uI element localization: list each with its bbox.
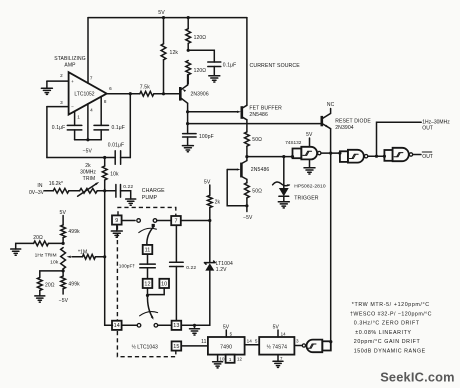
svg-text:7: 7 <box>90 76 93 81</box>
svg-text:LT1004: LT1004 <box>216 261 233 267</box>
label trigger <box>294 196 319 202</box>
label half LTC1043 <box>132 344 158 351</box>
svg-text:4: 4 <box>90 108 93 113</box>
junction top rail / 12k <box>162 16 165 19</box>
wire op-amp pin4 down <box>87 104 89 140</box>
wire ramp node vertical <box>187 112 189 124</box>
wire feedback left vertical <box>46 107 48 158</box>
svg-text:0.22: 0.22 <box>123 184 133 190</box>
svg-text:50Ω: 50Ω <box>252 137 262 143</box>
wire op-amp pin7 to 5V rail <box>87 18 89 84</box>
resistor 20ohm lower <box>37 269 63 296</box>
svg-text:RESET DIODE: RESET DIODE <box>335 118 371 124</box>
capacitor 100pF ramp <box>183 124 214 146</box>
svg-text:2N5486: 2N5486 <box>251 167 270 173</box>
svg-text:7490: 7490 <box>220 344 232 350</box>
wire pin14 to contact <box>122 324 138 326</box>
svg-text:0.1μF: 0.1μF <box>52 125 66 131</box>
resistor 20ohm left <box>16 235 63 249</box>
capacitor 0.1uF current source <box>208 62 237 68</box>
svg-text:*TRW MTR-5/ +120ppm/°C: *TRW MTR-5/ +120ppm/°C <box>352 302 430 308</box>
svg-text:−: − <box>71 104 74 109</box>
svg-text:11: 11 <box>201 339 207 345</box>
svg-text:14: 14 <box>247 338 253 343</box>
junction pin13 ground tee <box>193 324 196 327</box>
label 1Hz-30MHz OUT <box>422 119 450 131</box>
svg-text:LTC1052: LTC1052 <box>74 91 94 97</box>
junction out tap 1 <box>375 155 378 158</box>
junction 120ohm middle <box>187 49 190 52</box>
junction FET source node <box>245 155 248 158</box>
capacitor 100pF flying <box>119 254 156 279</box>
svg-text:5: 5 <box>255 338 258 343</box>
capacitor 0.1uF at pin1 <box>52 125 82 140</box>
potentiometer 10k 1Hz trim <box>35 248 66 269</box>
wire gate2 output <box>368 155 385 157</box>
wire 5V top rail <box>88 17 247 19</box>
wire Q2 emitter down <box>330 129 332 154</box>
svg-text:−5V: −5V <box>83 148 93 154</box>
svg-text:12: 12 <box>237 356 243 361</box>
svg-text:OUT: OUT <box>422 125 433 131</box>
label IN 0V-3V <box>29 183 45 196</box>
capacitor 0.22 input bypass <box>105 184 134 199</box>
svg-text:12k: 12k <box>170 50 179 56</box>
svg-text:−5V: −5V <box>243 215 253 221</box>
resistor 499k upper <box>61 216 80 244</box>
svg-text:0.22: 0.22 <box>186 265 196 271</box>
ground 7490 <box>213 362 223 368</box>
transistor Q1 2N3906 <box>180 85 209 103</box>
svg-text:0.3Hz/°C ZERO DRIFT: 0.3Hz/°C ZERO DRIFT <box>354 321 420 327</box>
wiper arrow 1Hz trim <box>67 256 83 258</box>
wire Q1 collector down <box>187 103 189 112</box>
svg-text:74S132: 74S132 <box>285 140 302 145</box>
junction divider feedback <box>329 340 332 343</box>
junction diode tap <box>282 155 285 158</box>
svg-text:8: 8 <box>104 99 107 104</box>
svg-text:10: 10 <box>219 356 225 361</box>
svg-text:½ 74S74: ½ 74S74 <box>267 343 288 350</box>
wire trim to node <box>97 190 105 192</box>
svg-text:2N5486: 2N5486 <box>249 112 268 118</box>
capacitor 0.1uF at pin8 <box>94 125 125 140</box>
svg-text:SeekIC.com: SeekIC.com <box>380 369 455 384</box>
svg-text:2k: 2k <box>85 163 91 169</box>
svg-text:1: 1 <box>229 357 232 362</box>
wire gate3 output <box>413 154 421 156</box>
wire Q4 gate feedback <box>227 170 247 206</box>
svg-text:1Hz–30MHz: 1Hz–30MHz <box>422 119 450 125</box>
svg-text:50Ω: 50Ω <box>252 189 262 195</box>
svg-text:CHARGE: CHARGE <box>142 188 165 194</box>
wire 16.2k to trim <box>69 190 80 192</box>
junction gate1 output node <box>329 152 332 155</box>
junction ramp node lower <box>186 122 189 125</box>
wire oscillator to divider <box>330 153 332 342</box>
svg-text:30MHz: 30MHz <box>80 169 96 175</box>
ground at op-amp pin2 <box>41 81 52 94</box>
svg-text:PUMP: PUMP <box>142 195 158 201</box>
wire current source drop <box>246 18 248 106</box>
resistor 2k <box>207 185 220 221</box>
wire 0.01uF up to output node <box>129 94 131 158</box>
wire ramp to reset diode <box>188 123 322 125</box>
junction Q4 source node <box>245 204 248 207</box>
svg-text:2k: 2k <box>215 200 221 206</box>
wire contact to pin7 <box>157 220 171 222</box>
gate U2b schmitt nand <box>348 150 368 163</box>
wire op-amp pin1 down <box>74 111 76 125</box>
wire op-amp pin6 output <box>107 93 131 95</box>
wire 5V 7490 <box>223 324 233 337</box>
label HP5082-2810 <box>294 183 326 189</box>
resistor 12k <box>161 18 178 94</box>
svg-text:11: 11 <box>145 247 151 253</box>
svg-text:5: 5 <box>230 331 233 336</box>
label -5V divider <box>59 298 69 304</box>
svg-text:6: 6 <box>109 86 112 91</box>
junction switch pole bottom <box>146 294 149 297</box>
resistor 10k integrator <box>102 158 119 191</box>
junction 2k node <box>208 219 211 222</box>
capacitor 0.22 pump <box>170 225 197 321</box>
svg-text:0.1μF: 0.1μF <box>223 62 237 68</box>
gate U2a 74S132 schmitt nand <box>301 147 321 160</box>
wire pin9 to contact <box>122 220 136 222</box>
label 5V 2k <box>204 180 211 186</box>
wire pin7 to 2k node <box>181 220 210 222</box>
junction ramp node upper <box>186 110 189 113</box>
junction input node <box>103 189 106 192</box>
svg-text:2: 2 <box>60 73 63 78</box>
pin box 13 <box>172 321 182 330</box>
svg-text:10: 10 <box>161 281 167 287</box>
resistor 1M <box>78 249 105 259</box>
IC 7490 <box>208 337 245 355</box>
label -5V opamp <box>83 148 93 154</box>
gate U2d inverter mirrored <box>302 340 322 353</box>
gate U2b input tie <box>338 151 348 162</box>
gate U2d input tie <box>322 341 331 350</box>
svg-text:9: 9 <box>115 218 118 224</box>
wire long vertical to pump <box>105 191 113 325</box>
svg-text:499k: 499k <box>68 229 80 235</box>
svg-text:−5V: −5V <box>59 298 69 304</box>
potentiometer 2k 30MHz trim <box>78 163 100 196</box>
label OUT-bar <box>422 152 433 160</box>
footnote WESCO <box>350 311 432 317</box>
node 5V top rail label <box>158 10 165 16</box>
svg-text:AMP: AMP <box>64 62 76 68</box>
svg-text:†WESCO #32-P/ −120ppm/°C: †WESCO #32-P/ −120ppm/°C <box>350 311 432 317</box>
label 74S132 <box>285 140 302 145</box>
wire ramp to FET gate <box>188 111 241 113</box>
junction top rail / 120ohm <box>187 16 190 19</box>
svg-text:16.2k*: 16.2k* <box>49 181 63 187</box>
pin box 15 <box>172 341 182 350</box>
svg-text:*1M: *1M <box>78 249 87 255</box>
svg-text:1: 1 <box>77 115 80 120</box>
dashed box LTC1043 <box>117 207 175 356</box>
svg-text:0V–3V: 0V–3V <box>29 190 45 196</box>
svg-text:10k: 10k <box>50 259 59 265</box>
svg-text:20ppm/°C GAIN DRIFT: 20ppm/°C GAIN DRIFT <box>354 339 421 345</box>
label stabilizing amp <box>54 56 86 69</box>
footnote gain drift <box>354 339 421 345</box>
ground at pin13 <box>190 325 200 335</box>
svg-text:2N3904: 2N3904 <box>335 125 354 131</box>
svg-text:3: 3 <box>296 339 299 344</box>
wire pin15 to 7490 <box>181 339 208 346</box>
svg-text:NC: NC <box>327 102 335 108</box>
label current source <box>250 63 301 69</box>
pin box 14 <box>112 321 122 330</box>
ground under gate1 <box>304 159 315 174</box>
wire op-amp pin3 input <box>47 106 69 108</box>
ground under pin9 <box>111 225 122 238</box>
wire feedback bottom row <box>47 157 105 159</box>
wire 74S74 pin3 out <box>294 339 302 346</box>
capacitor C 0.01uF feedback <box>105 142 131 164</box>
svg-text:IN: IN <box>37 183 43 189</box>
wire source node to gate1 <box>247 156 293 158</box>
wire pin13 to ground/LT1004 <box>181 324 210 326</box>
ground left of 20ohm <box>11 249 21 255</box>
switch arm top <box>139 224 157 245</box>
pin box 12 <box>143 279 153 288</box>
ground under 100pF <box>182 146 193 152</box>
transistor Q3 FET buffer 2N5486 <box>242 105 282 120</box>
svg-text:3: 3 <box>60 100 63 105</box>
svg-text:TRIGGER: TRIGGER <box>294 196 319 202</box>
op-amp U1 LTC1052 <box>60 72 112 119</box>
node A junction feedback/10k <box>103 156 106 159</box>
svg-text:13: 13 <box>173 323 179 329</box>
ground under 0.1uF cap <box>209 67 220 83</box>
footnote dynamic range <box>354 349 426 355</box>
footnote TRW <box>352 302 430 308</box>
label 5V divider <box>60 210 67 216</box>
label -5V sink <box>243 206 253 221</box>
transistor Q2 reset diode 2N3904 <box>322 109 372 131</box>
ground under lower 20ohm <box>35 296 45 302</box>
svg-text:0.1μF: 0.1μF <box>112 125 126 131</box>
wire Q1 emitter up <box>187 75 189 85</box>
ground under trigger diode <box>278 202 289 208</box>
junction output / 0.01uF branch <box>129 92 132 95</box>
junction out tap 2 <box>383 155 386 158</box>
pin box 9 <box>112 215 122 224</box>
gate U2a 74S132 input tie <box>291 149 301 159</box>
trigger arrow <box>273 182 291 186</box>
svg-text:TRIM: TRIM <box>83 176 96 182</box>
logo SeekIC.com <box>380 369 455 384</box>
footnote linearity <box>355 330 411 336</box>
resistor 50ohm source <box>245 120 263 157</box>
svg-text:CURRENT SOURCE: CURRENT SOURCE <box>250 63 301 69</box>
wire -5V rail under caps <box>75 139 102 141</box>
junction 1M to vertical <box>103 255 106 258</box>
svg-text:100pF: 100pF <box>199 134 214 140</box>
svg-text:499k: 499k <box>68 282 80 288</box>
wire 5V 74S74 <box>273 324 287 337</box>
pin box 11 <box>143 245 153 254</box>
junction divider bottom <box>62 269 65 272</box>
gate U2c input tie <box>384 150 392 161</box>
svg-text:5V: 5V <box>158 10 165 16</box>
junction 12k / base wire <box>162 92 165 95</box>
wire op-amp pin2 input <box>47 80 69 82</box>
ground under 0.22 bypass <box>126 199 136 205</box>
junction pin4 / -5V <box>86 138 89 141</box>
svg-text:12: 12 <box>144 281 150 287</box>
wire pins 12-10 join <box>148 288 165 295</box>
switch contact left bottom <box>137 324 141 328</box>
wire input <box>44 190 53 192</box>
svg-text:20Ω: 20Ω <box>45 282 55 288</box>
wire gate1 output <box>321 152 340 154</box>
footnote zero drift <box>354 321 420 327</box>
wire op-amp pin8 down <box>100 96 102 125</box>
wire contact to pin13 <box>158 324 172 326</box>
pins 7490 bottom <box>218 355 243 363</box>
svg-text:1.2V: 1.2V <box>216 267 227 273</box>
label NC <box>327 102 335 108</box>
resistor 16.2k input <box>49 181 69 193</box>
svg-text:+: + <box>71 79 74 84</box>
svg-text:0.01μF: 0.01μF <box>108 142 124 148</box>
label LT1004 <box>216 261 233 273</box>
IC 74S74 <box>259 337 294 355</box>
svg-text:100pF†: 100pF† <box>119 263 136 269</box>
resistor 7.5k <box>130 85 180 97</box>
diode D1 HP5082-2810 <box>279 157 289 202</box>
svg-text:±0.08% LINEARITY: ±0.08% LINEARITY <box>355 330 411 336</box>
resistor 499k lower <box>61 271 80 294</box>
diode D2 LT1004 1.2V <box>204 221 215 326</box>
switch arm bottom <box>140 295 158 319</box>
svg-text:10k: 10k <box>110 172 119 178</box>
svg-text:7: 7 <box>174 219 177 225</box>
resistor 50ohm sink <box>245 179 263 205</box>
resistor 120ohm upper <box>186 18 207 51</box>
svg-text:150dB DYNAMIC RANGE: 150dB DYNAMIC RANGE <box>354 349 426 355</box>
svg-text:STABILIZING: STABILIZING <box>54 56 86 62</box>
svg-text:HP5082-2810: HP5082-2810 <box>294 183 326 189</box>
gate U2c schmitt nand <box>393 148 413 161</box>
svg-text:20Ω: 20Ω <box>33 235 43 241</box>
svg-text:7.5k: 7.5k <box>140 85 150 91</box>
wire to current-source cap <box>188 50 214 62</box>
label charge pump <box>142 188 165 201</box>
pin box 10 <box>159 279 169 288</box>
switch contact right top <box>153 219 157 223</box>
svg-text:1Hz TRIM: 1Hz TRIM <box>35 253 57 259</box>
pin7 74S74 ground <box>273 355 283 368</box>
svg-text:120Ω: 120Ω <box>194 68 207 74</box>
switch contact left top <box>137 219 141 223</box>
svg-text:OUT: OUT <box>422 154 433 160</box>
wire to 1Hz-30MHz out <box>377 122 422 156</box>
svg-text:2N3906: 2N3906 <box>191 91 209 97</box>
svg-text:½ LTC1043: ½ LTC1043 <box>132 344 158 351</box>
pin box 7 <box>171 216 181 225</box>
transistor Q4 2N5486 sink <box>227 157 269 180</box>
svg-text:FET BUFFER: FET BUFFER <box>249 106 282 112</box>
svg-text:120Ω: 120Ω <box>194 35 207 41</box>
svg-text:15: 15 <box>173 344 179 350</box>
junction divider top <box>62 242 65 245</box>
switch contact right bottom <box>154 324 158 328</box>
svg-text:7: 7 <box>280 356 283 361</box>
svg-text:14: 14 <box>114 323 120 329</box>
wire 7490 to 74S74 <box>245 338 260 344</box>
resistor 120ohm lower <box>186 61 207 84</box>
svg-text:14: 14 <box>281 331 287 336</box>
wire 5V gate1 <box>306 132 313 147</box>
